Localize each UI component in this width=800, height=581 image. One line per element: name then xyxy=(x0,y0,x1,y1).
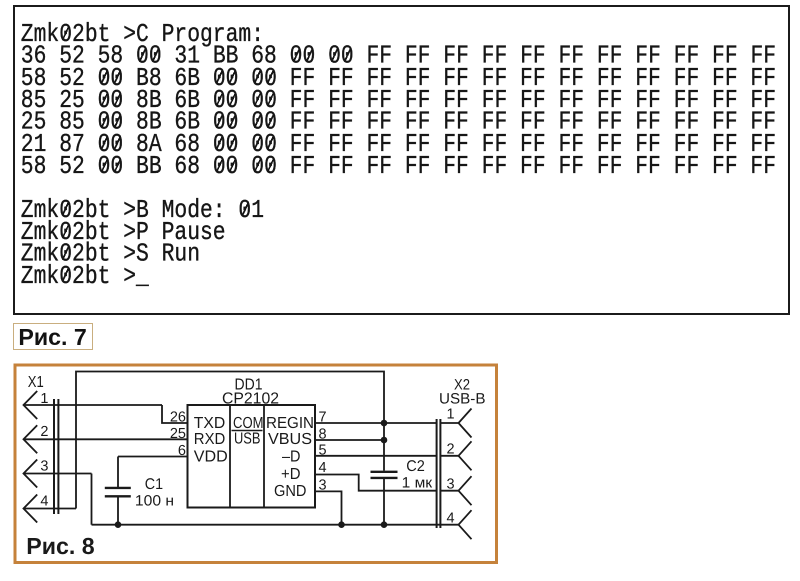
X1 pin 3 arrow xyxy=(24,460,38,488)
DD1 internal divider left xyxy=(229,405,231,508)
svg-text:VBUS: VBUS xyxy=(268,431,312,448)
svg-text:26: 26 xyxy=(170,410,186,426)
X2 pin 3 arrow xyxy=(459,476,472,505)
svg-text:Рис. 8: Рис. 8 xyxy=(26,533,95,559)
svg-text:6: 6 xyxy=(178,443,186,459)
svg-text:2: 2 xyxy=(447,442,455,458)
svg-text:3: 3 xyxy=(447,477,455,493)
wire DD1 pin3 GND down to ground rail xyxy=(315,491,342,524)
junction VBUS / +5V rail xyxy=(381,437,388,444)
svg-text:3: 3 xyxy=(40,459,48,475)
wire DD1 pin4 +D jog to X2.3 xyxy=(315,475,436,491)
svg-text:–D: –D xyxy=(282,449,301,466)
svg-text:C1: C1 xyxy=(145,476,163,493)
svg-text:GND: GND xyxy=(274,483,307,500)
svg-text:1: 1 xyxy=(447,407,455,423)
wire ground rail along bottom xyxy=(92,524,459,526)
terminal output panel (Ris.7) xyxy=(13,5,790,315)
svg-text:C2: C2 xyxy=(406,458,425,475)
junction C2 / ground rail xyxy=(381,521,388,528)
junction REGIN / +5V rail xyxy=(381,420,388,427)
wire X1.2 to DD1 pin 25 xyxy=(24,438,189,440)
wire C1 node to DD1 pin 6 VDD xyxy=(118,456,188,458)
svg-text:CP2102: CP2102 xyxy=(222,391,279,408)
capacitor C2 xyxy=(371,471,398,473)
wire X2.2 stub xyxy=(441,455,459,457)
schematic panel frame (Ris.8 box) xyxy=(15,365,497,563)
IC DD1 CP2102 body xyxy=(188,405,316,508)
connector X1 body bars xyxy=(53,399,55,514)
svg-text:REGIN: REGIN xyxy=(266,415,314,432)
svg-text:USB: USB xyxy=(234,431,261,448)
svg-text:+D: +D xyxy=(281,466,301,483)
svg-text:X1: X1 xyxy=(28,374,44,391)
wire C1 down to ground rail xyxy=(117,498,119,525)
svg-text:TXD: TXD xyxy=(194,415,226,432)
svg-text:1 мк: 1 мк xyxy=(402,474,433,491)
X2 pin 4 arrow xyxy=(459,510,472,539)
wire X1.3 horizontal xyxy=(24,473,92,475)
wire VDD node down to C1 xyxy=(117,457,119,488)
svg-text:4: 4 xyxy=(40,494,48,510)
X1 pin 2 arrow xyxy=(24,425,38,453)
wire X2.3 stub xyxy=(441,490,459,492)
wire DD1 pin5 -D to X2.2 xyxy=(315,455,436,457)
COM underline xyxy=(232,430,263,432)
wire X1.4 horizontal xyxy=(24,508,77,510)
svg-text:100 н: 100 н xyxy=(135,493,174,510)
wire C2 down to ground rail xyxy=(383,479,385,525)
svg-text:25: 25 xyxy=(170,426,186,442)
svg-text:1: 1 xyxy=(40,391,48,407)
X1 pin 1 arrow xyxy=(24,391,38,419)
connector X2 body bars xyxy=(436,419,438,528)
wire DD1 pin8 VBUS to +5V rail xyxy=(315,439,384,441)
figure caption box Ris. 7 xyxy=(13,323,93,351)
DD1 internal divider right xyxy=(263,405,265,508)
junction GND / ground rail xyxy=(338,521,345,528)
svg-text:4: 4 xyxy=(447,511,455,527)
svg-text:USB-B: USB-B xyxy=(439,391,486,408)
X2 pin 1 arrow xyxy=(459,409,472,438)
wire X1.1 jog down to DD1 pin 26 xyxy=(162,405,188,423)
X1 pin 4 arrow xyxy=(24,495,38,523)
wire X1.3 down to ground rail xyxy=(91,474,93,525)
X2 pin 2 arrow xyxy=(459,441,472,470)
svg-text:COM: COM xyxy=(233,415,264,432)
junction C1 / ground rail xyxy=(115,521,122,528)
wire X2.1 stub xyxy=(441,422,459,424)
wire DD1 pin7 REGIN to X2.1 xyxy=(315,422,436,424)
svg-text:VDD: VDD xyxy=(194,449,228,466)
wire top rail X1.4 to VBUS/C2 node xyxy=(76,372,384,509)
svg-text:RXD: RXD xyxy=(194,431,226,448)
wire X1.1 horizontal xyxy=(24,404,163,406)
svg-text:2: 2 xyxy=(40,424,48,440)
capacitor C1 xyxy=(105,487,131,489)
svg-text:4: 4 xyxy=(319,460,327,476)
